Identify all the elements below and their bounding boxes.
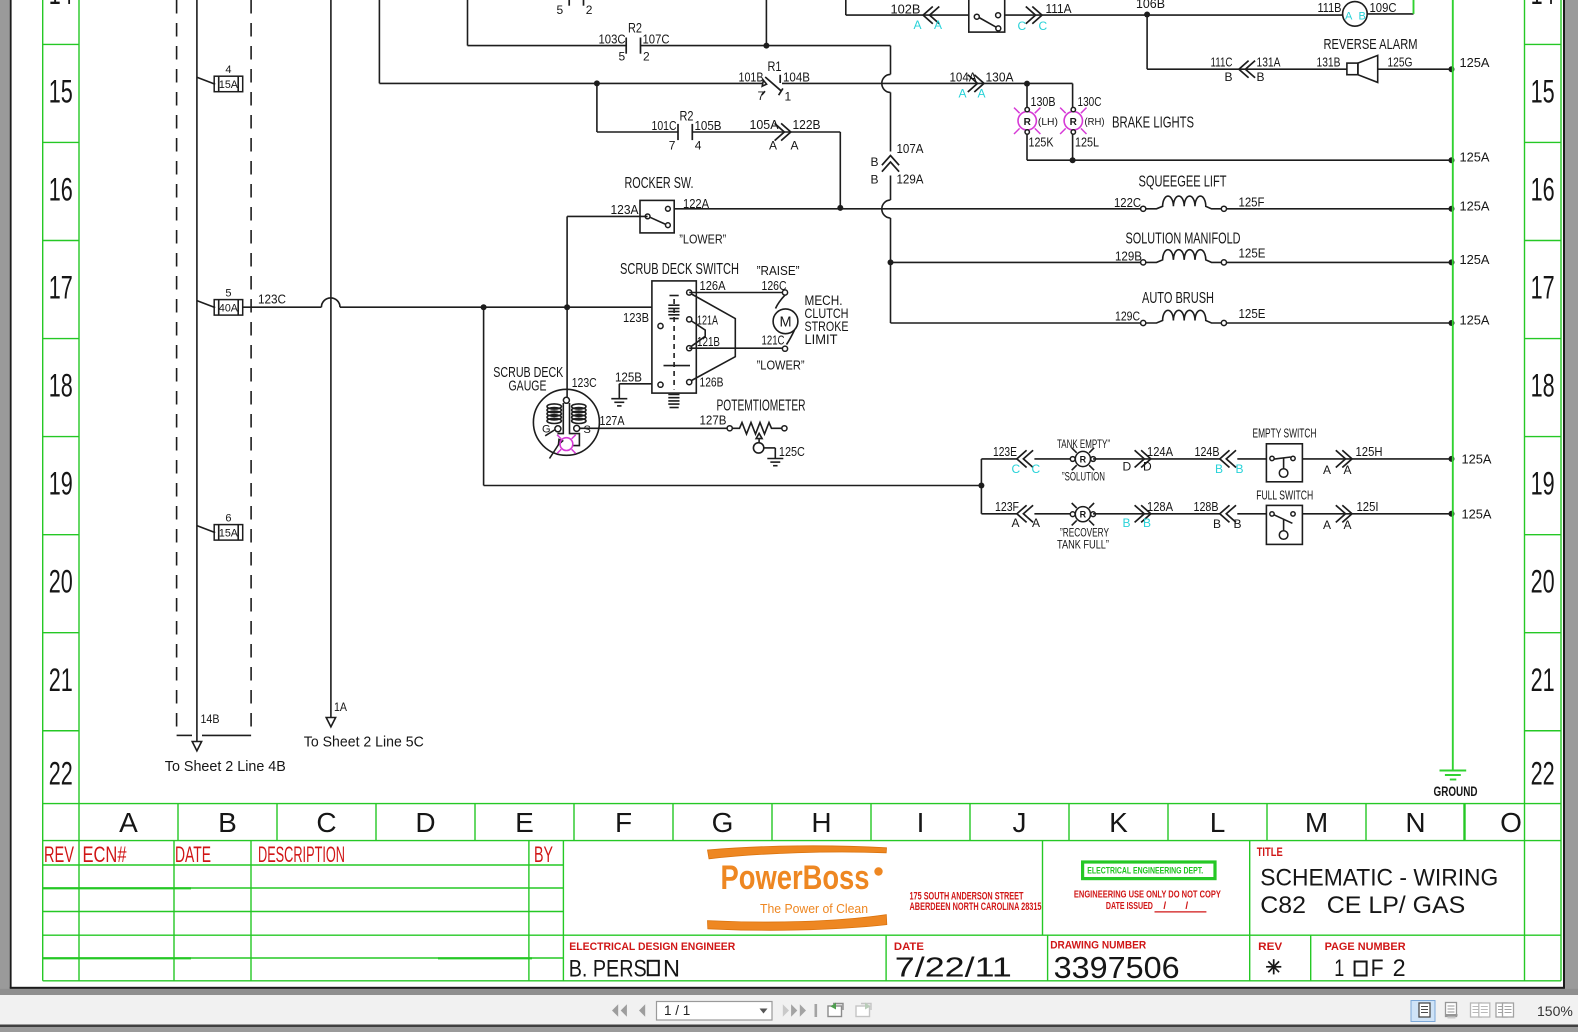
- svg-text:B: B: [1224, 70, 1232, 84]
- svg-text:ELECTRICAL DESIGN ENGINEER: ELECTRICAL DESIGN ENGINEER: [569, 941, 735, 953]
- svg-text:14: 14: [49, 0, 73, 11]
- svg-text:H: H: [811, 807, 831, 838]
- svg-text:A: A: [791, 139, 799, 153]
- svg-text:”LOWER”: ”LOWER”: [757, 359, 805, 373]
- svg-text:R2: R2: [628, 20, 642, 35]
- svg-text:D: D: [1123, 460, 1132, 474]
- fuse bus 14B vertical wire: [196, 0, 198, 741]
- junction node brake lights: [1024, 81, 1030, 87]
- svg-text:111C: 111C: [1211, 55, 1233, 70]
- svg-text:16: 16: [49, 172, 73, 208]
- svg-text:A: A: [978, 87, 986, 101]
- svg-text:130B: 130B: [1031, 94, 1056, 109]
- svg-text:127B: 127B: [700, 413, 727, 428]
- wire R2-top 107C line: [467, 0, 469, 46]
- fuse F6 15A: [214, 525, 243, 541]
- svg-text:R1: R1: [768, 59, 782, 74]
- svg-text:125A: 125A: [1460, 55, 1490, 70]
- svg-text:R: R: [1080, 510, 1087, 520]
- svg-text:21: 21: [49, 662, 73, 698]
- svg-text:M: M: [1305, 807, 1328, 838]
- svg-text:129C: 129C: [1115, 309, 1140, 324]
- svg-text:102B: 102B: [891, 2, 921, 17]
- svg-text:B: B: [870, 173, 878, 187]
- svg-text:5: 5: [225, 288, 231, 300]
- svg-text:C: C: [1039, 19, 1048, 33]
- svg-text:ROCKER SW.: ROCKER SW.: [625, 175, 694, 192]
- svg-text:125H: 125H: [1356, 444, 1383, 459]
- svg-text:4: 4: [225, 64, 231, 76]
- wire 121B to 121C: [689, 347, 782, 349]
- wire 123C to gauge: [566, 307, 568, 397]
- svg-text:150%: 150%: [1537, 1003, 1573, 1019]
- svg-text:PAGE NUMBER: PAGE NUMBER: [1325, 941, 1406, 953]
- svg-text:B. PERS: B. PERS: [569, 956, 647, 983]
- svg-text:20: 20: [49, 564, 73, 600]
- svg-text:PowerBoss: PowerBoss: [721, 859, 870, 897]
- relay R1 pins 5-2 stub (cut at top): [568, 0, 570, 6]
- svg-text:123C: 123C: [258, 291, 286, 306]
- svg-text:125E: 125E: [1239, 246, 1266, 261]
- svg-text:FULL SWITCH: FULL SWITCH: [1256, 488, 1313, 503]
- svg-text:7: 7: [669, 139, 676, 153]
- svg-text:B: B: [1359, 11, 1366, 23]
- tank empty sensor line 123E: [981, 458, 1017, 460]
- svg-text:B: B: [1123, 516, 1131, 530]
- svg-text:B: B: [1257, 70, 1265, 84]
- svg-text:122C: 122C: [1114, 195, 1141, 210]
- svg-text:109C: 109C: [1370, 0, 1397, 15]
- brake light RH branch: [1072, 84, 1074, 108]
- svg-text:103C: 103C: [599, 32, 626, 47]
- svg-text:2: 2: [1393, 955, 1406, 982]
- svg-text:15A: 15A: [219, 79, 239, 91]
- svg-text:125A: 125A: [1460, 252, 1490, 267]
- fuse F5 40A: [214, 300, 243, 316]
- svg-text:GAUGE: GAUGE: [509, 378, 547, 395]
- svg-text:A: A: [1323, 463, 1331, 477]
- svg-text:129A: 129A: [897, 172, 924, 187]
- fuse panel dashed boundary right: [250, 0, 252, 735]
- arrow to sheet 2 line 5C: [326, 718, 335, 727]
- connector 107A/129A on riser: [882, 156, 899, 172]
- junction node 123C / feed: [481, 304, 487, 310]
- svg-text:125F: 125F: [1239, 195, 1265, 210]
- svg-text:21: 21: [1531, 662, 1555, 698]
- svg-text:19: 19: [1531, 466, 1555, 502]
- junction node reverse alarm bus: [1449, 66, 1455, 72]
- svg-text:1A: 1A: [334, 700, 347, 714]
- junction node 123C / gauge branch: [564, 304, 570, 310]
- svg-text:3397506: 3397506: [1054, 950, 1180, 985]
- svg-text:J: J: [1013, 807, 1027, 838]
- svg-text:SCRUB DECK SWITCH: SCRUB DECK SWITCH: [620, 261, 739, 278]
- svg-text:ENGINEERING USE ONLY DO NOT CO: ENGINEERING USE ONLY DO NOT COPY: [1074, 890, 1221, 901]
- svg-text:B: B: [1234, 517, 1242, 531]
- svg-text:The Power of Clean: The Power of Clean: [760, 902, 868, 916]
- svg-text:”LOWER”: ”LOWER”: [679, 233, 726, 247]
- svg-text:128B: 128B: [1194, 499, 1219, 514]
- svg-text:SOLUTION MANIFOLD: SOLUTION MANIFOLD: [1126, 231, 1241, 248]
- wire lamps return to bus: [1027, 159, 1452, 161]
- svg-text:123F: 123F: [995, 499, 1019, 514]
- svg-text:DESCRIPTION: DESCRIPTION: [258, 842, 345, 867]
- svg-text:C: C: [316, 807, 336, 838]
- scrub deck gauge: [533, 389, 599, 455]
- svg-text:ECN#: ECN#: [83, 842, 128, 867]
- scrub deck switch box: [652, 281, 696, 393]
- junction node tank feed split: [978, 483, 984, 489]
- svg-text:107C: 107C: [643, 32, 670, 47]
- svg-text:22: 22: [49, 756, 73, 792]
- svg-text:123A: 123A: [611, 202, 639, 217]
- svg-text:R: R: [1024, 117, 1032, 128]
- svg-text:C82 CE LP/ GAS: C82 CE LP/ GAS: [1260, 892, 1465, 919]
- svg-text:C: C: [1018, 19, 1027, 33]
- svg-text:SQUEEGEE LIFT: SQUEEGEE LIFT: [1139, 174, 1227, 191]
- svg-text:125E: 125E: [1239, 306, 1266, 321]
- svg-text:18: 18: [1531, 368, 1555, 404]
- ground symbol green: [1440, 770, 1467, 772]
- svg-text:17: 17: [1531, 270, 1555, 306]
- svg-text:5: 5: [557, 3, 564, 17]
- svg-text:B: B: [1213, 517, 1221, 531]
- svg-text:TITLE: TITLE: [1257, 845, 1283, 859]
- svg-text:105B: 105B: [695, 118, 722, 133]
- wire 127A from gauge: [580, 427, 730, 429]
- svg-text:16: 16: [1531, 172, 1555, 208]
- svg-text:131A: 131A: [1257, 55, 1281, 70]
- connector 131A: [1239, 61, 1255, 78]
- wire 107A riser vertical: [765, 0, 767, 46]
- svg-text:7/22/11: 7/22/11: [895, 952, 1012, 983]
- svg-text:122B: 122B: [793, 117, 821, 132]
- svg-text:To Sheet 2 Line 4B: To Sheet 2 Line 4B: [165, 758, 286, 775]
- svg-text:K: K: [1109, 807, 1128, 838]
- svg-text:130A: 130A: [986, 70, 1014, 85]
- svg-text:125A: 125A: [1462, 507, 1492, 522]
- svg-text:123C: 123C: [572, 375, 597, 390]
- svg-text:17: 17: [49, 270, 73, 306]
- svg-text:131B: 131B: [1317, 55, 1341, 70]
- fuse panel dashed boundary bottom: [177, 734, 192, 736]
- svg-text:SCHEMATIC - WIRING: SCHEMATIC - WIRING: [1260, 864, 1498, 891]
- svg-text:REVERSE ALARM: REVERSE ALARM: [1324, 36, 1418, 53]
- svg-text:R: R: [1070, 117, 1078, 128]
- electrical engineering dept box: [1083, 862, 1215, 879]
- pot wiper + 125C ground: [756, 433, 762, 442]
- svg-text:111B: 111B: [1318, 0, 1342, 15]
- svg-text:125L: 125L: [1075, 135, 1099, 150]
- svg-text:TANK EMPTY”: TANK EMPTY”: [1057, 437, 1110, 451]
- svg-text:TANK FULL”: TANK FULL”: [1057, 538, 1109, 552]
- junction node lamps return: [1070, 157, 1076, 163]
- svg-text:S: S: [584, 424, 591, 436]
- svg-text:F: F: [615, 807, 632, 838]
- wire 1A vertical: [330, 0, 332, 717]
- svg-text:C: C: [1032, 462, 1041, 476]
- svg-text:125K: 125K: [1029, 135, 1054, 150]
- svg-text:AUTO BRUSH: AUTO BRUSH: [1142, 290, 1214, 307]
- wire R1 101B line: [378, 0, 380, 83]
- svg-text:1 / 1: 1 / 1: [664, 1003, 690, 1018]
- svg-text:7: 7: [758, 89, 765, 103]
- svg-text:(LH): (LH): [1038, 117, 1058, 128]
- svg-text:E: E: [515, 807, 534, 838]
- svg-text:124B: 124B: [1195, 444, 1220, 459]
- svg-text:A: A: [1032, 516, 1040, 530]
- wire R2 101C line: [596, 83, 598, 132]
- connector 111A: [1026, 7, 1042, 24]
- svg-text:A: A: [1344, 463, 1352, 477]
- arrow to sheet 2 line 4B: [192, 742, 201, 751]
- wire relay to horn 111A/111B: [1005, 14, 1343, 16]
- svg-text:125A: 125A: [1460, 150, 1490, 165]
- feed wire to tank sensors: [483, 307, 485, 485]
- svg-text:125B: 125B: [615, 370, 642, 385]
- svg-text:DATE ISSUED: DATE ISSUED: [1106, 901, 1153, 912]
- fuse panel dashed boundary left: [176, 0, 178, 735]
- svg-text:N: N: [1405, 807, 1425, 838]
- svg-text:BRAKE LIGHTS: BRAKE LIGHTS: [1112, 115, 1194, 132]
- svg-text:/: /: [1185, 901, 1188, 912]
- svg-text:125A: 125A: [1460, 199, 1490, 214]
- svg-text:A: A: [934, 18, 942, 32]
- svg-text:D: D: [1143, 460, 1152, 474]
- svg-text:125I: 125I: [1357, 499, 1379, 514]
- svg-text:123B: 123B: [623, 310, 649, 325]
- svg-text:A: A: [769, 139, 777, 153]
- svg-text:”RAISE”: ”RAISE”: [757, 264, 800, 278]
- svg-text:B: B: [1143, 516, 1151, 530]
- svg-text:REV: REV: [44, 842, 74, 867]
- svg-text:14B: 14B: [201, 712, 220, 726]
- svg-text:EMPTY SWITCH: EMPTY SWITCH: [1253, 426, 1317, 441]
- svg-text:B: B: [870, 155, 878, 169]
- svg-text:124A: 124A: [1147, 444, 1173, 459]
- svg-text:O: O: [1500, 807, 1522, 838]
- svg-text:20: 20: [1531, 564, 1555, 600]
- svg-text:127A: 127A: [600, 413, 625, 428]
- svg-text:M: M: [779, 315, 791, 331]
- svg-text:126A: 126A: [700, 278, 726, 293]
- connector 104A/130A: [968, 75, 984, 92]
- svg-text:101C: 101C: [652, 118, 677, 133]
- svg-text:A: A: [1323, 518, 1331, 532]
- connector 102B: [923, 7, 939, 24]
- svg-text:15A: 15A: [219, 528, 239, 540]
- svg-text:130C: 130C: [1078, 94, 1102, 109]
- svg-text:A: A: [959, 87, 967, 101]
- svg-text:ABERDEEN NORTH CAROLINA 28315: ABERDEEN NORTH CAROLINA 28315: [910, 901, 1042, 913]
- svg-text:To Sheet 2 Line 5C: To Sheet 2 Line 5C: [304, 734, 424, 751]
- connector 105A/122B: [775, 123, 791, 140]
- svg-text:121C: 121C: [762, 333, 785, 348]
- svg-text:125A: 125A: [1462, 452, 1492, 467]
- svg-text:15: 15: [49, 73, 73, 109]
- junction node R1-line / R2-line branch: [594, 80, 600, 86]
- junction node on 107C line: [763, 43, 769, 49]
- svg-text:125A: 125A: [1460, 313, 1490, 328]
- svg-text:121A: 121A: [697, 313, 718, 328]
- switch kite linkage: [692, 294, 736, 381]
- svg-text:121B: 121B: [697, 334, 720, 349]
- relay contact R2 pins 5-2: [625, 38, 627, 54]
- svg-text:126B: 126B: [700, 375, 724, 390]
- fuse F4 15A: [214, 76, 243, 92]
- svg-text:104A: 104A: [950, 70, 977, 85]
- svg-text:15: 15: [1531, 73, 1555, 109]
- PowerBoss logo: [708, 846, 887, 859]
- junction node 106B: [1144, 12, 1150, 18]
- svg-text:G: G: [712, 807, 734, 838]
- mech clutch motor: [782, 290, 787, 295]
- svg-text:101B: 101B: [739, 70, 764, 85]
- drawing frame: [42, 0, 44, 981]
- wire 122B corner down: [839, 132, 841, 208]
- wire reverse alarm 111C: [1146, 15, 1148, 70]
- svg-text:123E: 123E: [993, 444, 1017, 459]
- viewer toolbar: [0, 989, 1578, 995]
- recovery tank full line 123F: [981, 513, 1017, 515]
- brake light LH branch: [1026, 84, 1028, 108]
- relay contact R2 pins 7-4: [677, 124, 679, 140]
- svg-text:105A: 105A: [750, 117, 779, 132]
- wire 123A from rocker: [567, 215, 648, 217]
- wire 122A line: [674, 208, 1143, 210]
- svg-text:106B: 106B: [1136, 0, 1165, 11]
- rev asterisk: [1274, 966, 1282, 968]
- svg-text:N: N: [663, 956, 680, 983]
- svg-text:1: 1: [1334, 955, 1344, 982]
- svg-text:A: A: [119, 807, 138, 838]
- svg-text:107A: 107A: [897, 141, 924, 156]
- svg-text:A: A: [1345, 11, 1353, 23]
- relay switch R1 pins 7-1: [762, 80, 766, 86]
- junction node 122A/122B: [837, 205, 843, 211]
- svg-text:R2: R2: [680, 109, 694, 124]
- svg-text:REV: REV: [1258, 941, 1283, 953]
- svg-text:128A: 128A: [1147, 499, 1173, 514]
- svg-text:ELECTRICAL ENGINEERING DEPT.: ELECTRICAL ENGINEERING DEPT.: [1087, 865, 1203, 876]
- ground bus 125A green: [1452, 0, 1454, 770]
- svg-text:14: 14: [1531, 0, 1555, 11]
- reverse alarm speaker: [1347, 63, 1358, 75]
- svg-text:A: A: [1344, 518, 1352, 532]
- svg-text:C: C: [1012, 462, 1021, 476]
- svg-text:F: F: [1371, 955, 1384, 982]
- svg-text:22: 22: [1531, 756, 1555, 792]
- svg-text:129B: 129B: [1115, 249, 1142, 264]
- wire 125B + ground: [619, 383, 652, 385]
- svg-text:A: A: [1012, 516, 1020, 530]
- svg-text:/: /: [1163, 901, 1166, 912]
- svg-text:125G: 125G: [1388, 55, 1413, 70]
- svg-text:GROUND: GROUND: [1434, 784, 1478, 799]
- svg-text:B: B: [1236, 462, 1244, 476]
- switch internals: [673, 299, 675, 390]
- svg-text:L: L: [1210, 807, 1226, 838]
- wire 126A to 126C: [689, 292, 783, 294]
- svg-text:I: I: [917, 807, 925, 838]
- svg-text:2: 2: [586, 3, 593, 17]
- svg-text:4: 4: [695, 139, 702, 153]
- svg-text:R: R: [1080, 454, 1087, 464]
- svg-text:”SOLUTION: ”SOLUTION: [1062, 470, 1105, 484]
- svg-text:(RH): (RH): [1085, 117, 1105, 128]
- svg-text:19: 19: [49, 466, 73, 502]
- relay K1 top: [969, 0, 1005, 32]
- svg-text:A: A: [914, 18, 922, 32]
- svg-text:40A: 40A: [219, 303, 239, 315]
- svg-text:2: 2: [643, 50, 650, 64]
- svg-text:POTEMTIOMETER: POTEMTIOMETER: [717, 398, 806, 415]
- svg-text:B: B: [1215, 462, 1223, 476]
- svg-text:104B: 104B: [783, 70, 810, 85]
- svg-text:1: 1: [785, 90, 792, 104]
- svg-text:18: 18: [49, 368, 73, 404]
- svg-text:125C: 125C: [779, 444, 805, 459]
- svg-text:DATE: DATE: [175, 842, 211, 867]
- wire 123C from fuse F5: [243, 306, 322, 308]
- svg-text:LIMIT: LIMIT: [805, 331, 838, 347]
- wire 109C to top: [1367, 13, 1413, 15]
- svg-text:B: B: [218, 807, 237, 838]
- rocker switch: [640, 200, 674, 233]
- wire 106B top bus: [845, 0, 847, 15]
- svg-text:5: 5: [619, 50, 626, 64]
- horn gauge 111B/109C: [1343, 2, 1368, 27]
- svg-text:6: 6: [225, 513, 231, 525]
- svg-text:D: D: [415, 807, 435, 838]
- svg-text:111A: 111A: [1046, 1, 1072, 16]
- svg-text:BY: BY: [534, 842, 553, 867]
